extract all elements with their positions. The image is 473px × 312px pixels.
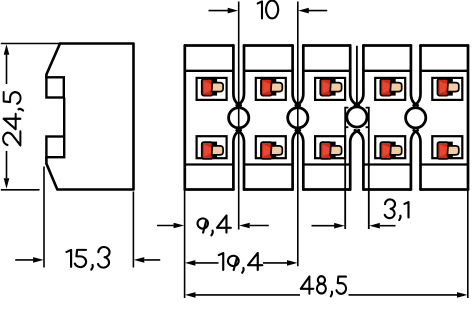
gap 1 center extension line xyxy=(238,2,240,230)
pole 1 upper band line xyxy=(185,70,234,72)
right main extension line xyxy=(467,190,469,299)
pole 4 lower band line xyxy=(363,163,411,165)
pole 3 outline xyxy=(296,46,359,190)
pole 4 upper band line xyxy=(363,70,411,72)
pole 3 lower band line xyxy=(303,163,350,165)
dimension 9,4 xyxy=(157,215,269,235)
dimension 3,1 xyxy=(312,199,409,228)
pole 4 lower pusher box xyxy=(375,136,405,158)
left main extension line xyxy=(184,190,186,299)
pole 4 upper pusher box xyxy=(375,78,405,100)
pole 1 outline xyxy=(185,46,241,190)
gap 2 center extension line xyxy=(297,2,299,267)
gap 3 seam center line xyxy=(356,46,358,104)
pole 3 lower red push button lever xyxy=(320,142,341,159)
pole 2 outline xyxy=(237,46,300,190)
pole 5 upper band line xyxy=(421,70,469,72)
interlock circle 3 xyxy=(347,107,367,127)
pole 1 upper red push button lever xyxy=(202,78,223,95)
pole 4 upper red push button lever xyxy=(380,78,401,95)
pole 3 upper pusher box xyxy=(315,78,345,100)
pole 1 lower band line xyxy=(185,163,234,165)
pole 5 lower pusher box xyxy=(432,136,462,158)
pole 3 upper band line xyxy=(303,70,350,72)
pole 1 lower red push button lever xyxy=(202,142,223,159)
pole 2 lower pusher box xyxy=(256,136,286,158)
side view mounting notch square lower xyxy=(46,137,64,158)
pole 5 lower red push button lever xyxy=(438,142,459,159)
pole 5 upper red push button lever xyxy=(438,78,459,95)
dimension 24,5 (height, left) xyxy=(1,44,60,190)
pole 2 upper pusher box xyxy=(256,78,286,100)
slot recess right line / extension line for 3,1 xyxy=(366,107,369,229)
pole 4 lower red push button lever xyxy=(380,142,401,159)
pole 1 upper pusher box xyxy=(197,78,227,100)
interlock circle 2 xyxy=(288,108,308,128)
dimension 10 (top pitch) xyxy=(209,1,328,19)
dimension 48,5 (total width) xyxy=(185,276,468,298)
slot recess left line / extension line for 3,1 xyxy=(345,107,348,229)
pole 3 lower pusher box xyxy=(315,136,345,158)
interlock circle 1 xyxy=(229,108,249,128)
pole 2 upper band line xyxy=(244,70,293,72)
dimension 19,4 xyxy=(185,253,298,273)
pole 5 upper pusher box xyxy=(432,78,462,100)
pole 1 lower pusher box xyxy=(197,136,227,158)
pole 2 lower red push button lever xyxy=(261,142,282,159)
side view mounting notch square upper xyxy=(46,77,63,97)
pole 5 lower band line xyxy=(421,163,469,165)
pole 5 outline xyxy=(414,46,468,190)
pole 4 outline xyxy=(355,46,418,190)
side view housing outline xyxy=(46,44,133,190)
interlock circle 4 xyxy=(406,108,426,128)
dimension 15,3 (side view width) xyxy=(15,167,160,270)
pole 3 upper red push button lever xyxy=(320,78,341,95)
pole 2 upper red push button lever xyxy=(261,78,282,95)
side view left edge between notches xyxy=(63,98,65,137)
pole 2 lower band line xyxy=(244,163,293,165)
